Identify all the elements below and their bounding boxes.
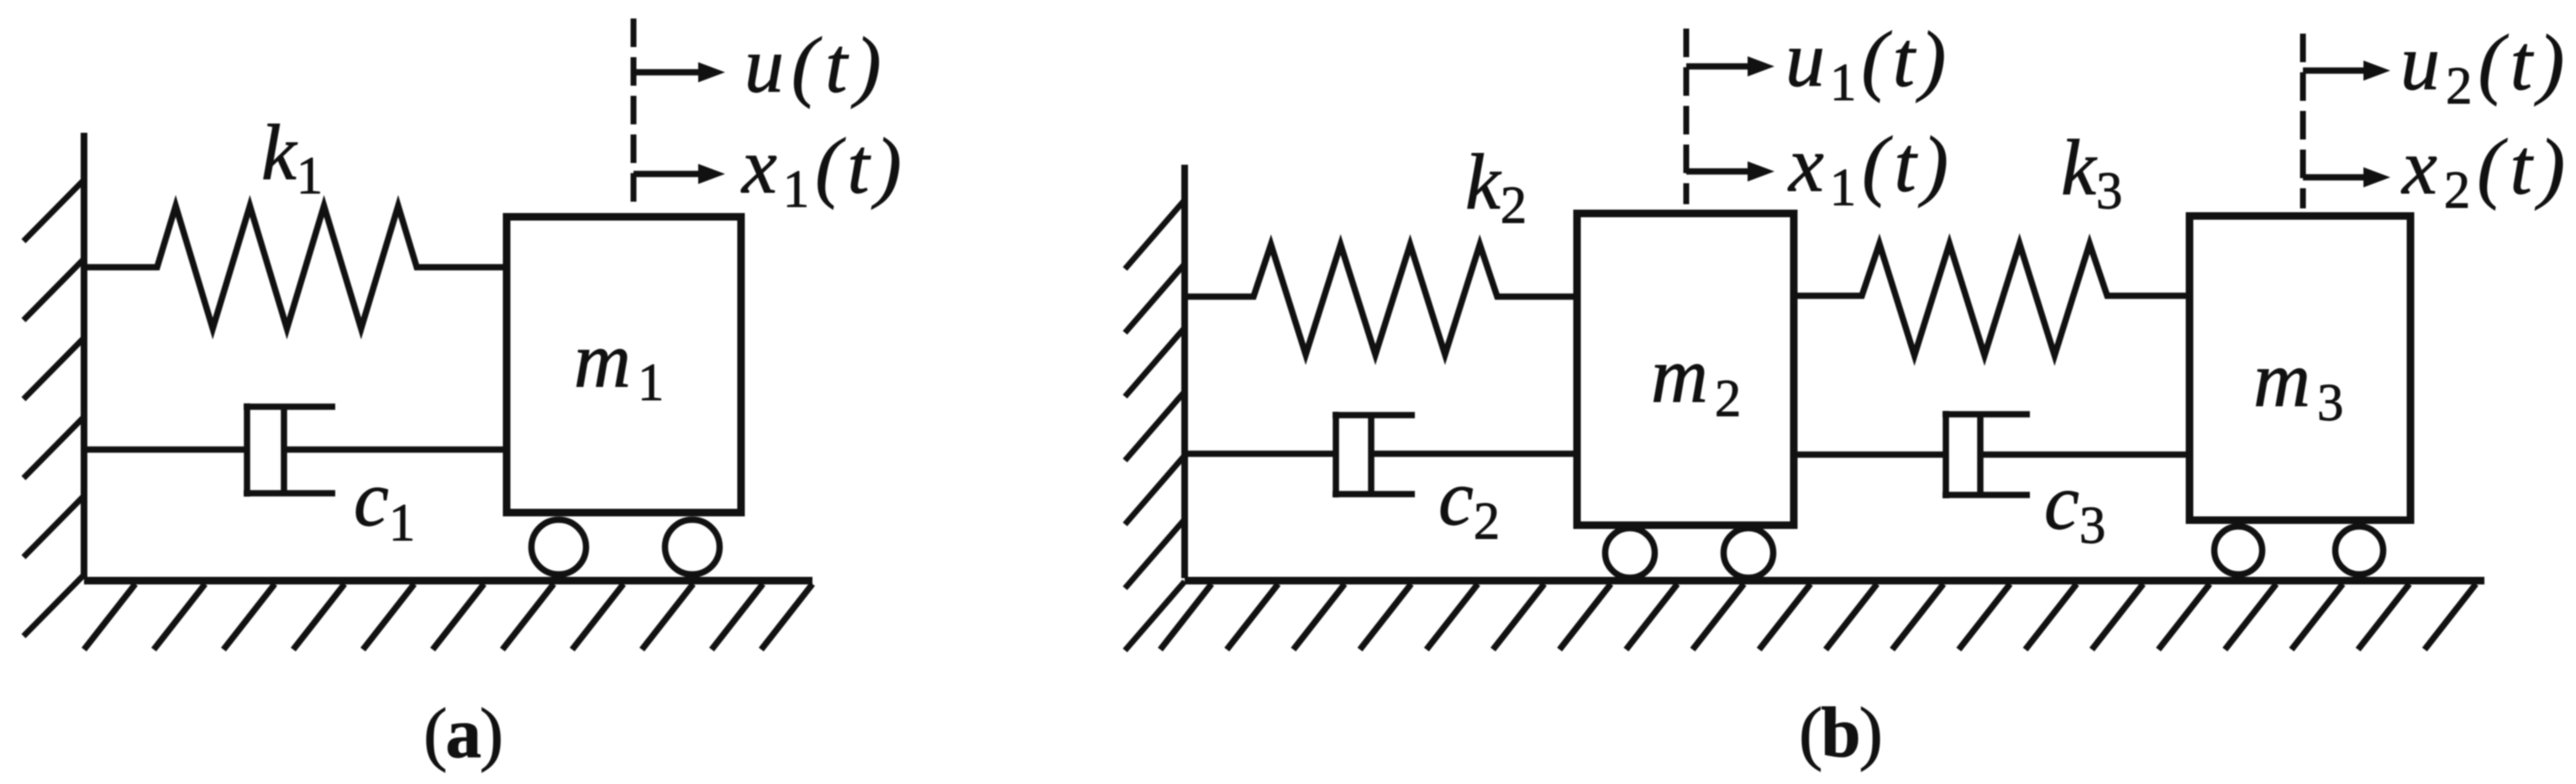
ground line (a)	[84, 577, 812, 585]
svg-text:(a): (a)	[423, 694, 502, 773]
spring k3	[1794, 244, 2190, 355]
ground line (b)	[1185, 577, 2484, 585]
arrow u(t)	[633, 69, 703, 76]
wheel m2 left	[1606, 529, 1655, 578]
wall (b)	[1181, 165, 1188, 578]
wall hatching (a)	[24, 180, 84, 636]
spring k1	[87, 206, 507, 329]
svg-text:x1(t): x1(t)	[740, 123, 907, 218]
svg-text:u(t): u(t)	[744, 22, 889, 109]
mass m3	[2190, 216, 2410, 520]
mass m1	[507, 217, 741, 513]
arrow x1(t) (a)	[633, 171, 703, 177]
reference dashed line 2 (b)	[2300, 34, 2306, 208]
damper c2	[1188, 412, 1577, 497]
wheel m3 left	[2215, 527, 2263, 575]
reference dashed line 1 (b)	[1684, 29, 1690, 204]
ground hatching (b)	[1160, 584, 2476, 650]
wheel (a) right	[665, 520, 720, 575]
svg-text:k1: k1	[261, 109, 323, 205]
svg-text:(b): (b)	[1799, 693, 1881, 772]
svg-text:m3: m3	[2253, 336, 2350, 432]
wall hatching (b)	[1125, 200, 1185, 650]
damper c3	[1794, 411, 2190, 498]
mass m2	[1577, 213, 1794, 525]
svg-text:m2: m2	[1651, 332, 1748, 428]
damper c1	[87, 403, 507, 497]
reference dashed line (a)	[631, 18, 637, 207]
svg-text:k3: k3	[2061, 124, 2122, 220]
spring k2	[1188, 245, 1577, 355]
wall (a)	[81, 133, 87, 578]
svg-text:x1(t): x1(t)	[1787, 121, 1954, 217]
wheel m3 right	[2336, 527, 2384, 575]
wheel m2 right	[1724, 529, 1774, 578]
ground hatching (a)	[84, 584, 812, 650]
arrow x2(t)	[2303, 174, 2368, 181]
svg-text:u2(t): u2(t)	[2400, 19, 2570, 115]
svg-text:c2: c2	[1438, 455, 1500, 550]
svg-text:m1: m1	[574, 317, 670, 412]
arrow x1(t) (b)	[1686, 168, 1753, 175]
arrow u2(t)	[2303, 67, 2368, 74]
svg-text:u1(t): u1(t)	[1785, 16, 1951, 112]
wheel (a) left	[532, 520, 586, 575]
svg-text:c1: c1	[354, 455, 415, 552]
svg-text:x2(t): x2(t)	[2400, 124, 2572, 219]
svg-text:c3: c3	[2044, 459, 2105, 555]
arrow u1(t)	[1686, 63, 1753, 70]
svg-text:k2: k2	[1465, 139, 1527, 234]
